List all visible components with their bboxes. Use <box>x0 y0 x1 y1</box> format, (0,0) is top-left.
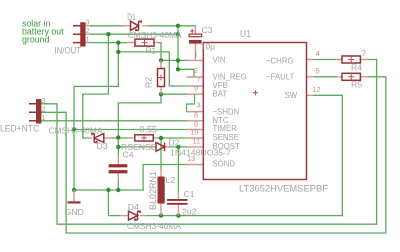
svg-text:C3: C3 <box>202 25 213 35</box>
svg-text:CMSH3-40MA: CMSH3-40MA <box>128 30 182 40</box>
svg-text:U1: U1 <box>240 28 251 40</box>
svg-text:5: 5 <box>316 66 320 75</box>
svg-text:11: 11 <box>193 136 200 145</box>
svg-text:GND: GND <box>65 207 84 217</box>
svg-text:13: 13 <box>187 154 195 163</box>
svg-text:L2: L2 <box>166 175 176 185</box>
svg-text:?: ? <box>361 48 366 58</box>
svg-text:BAT: BAT <box>213 90 228 99</box>
svg-text:9: 9 <box>194 84 198 93</box>
svg-text:SGND: SGND <box>213 160 236 169</box>
svg-text:C4: C4 <box>123 150 134 160</box>
svg-text:1: 1 <box>86 34 90 43</box>
svg-text:ground: ground <box>22 34 49 44</box>
svg-text:12: 12 <box>313 85 321 94</box>
svg-text:R4: R4 <box>351 62 362 72</box>
svg-text:R5: R5 <box>351 80 362 90</box>
svg-text:TIMER: TIMER <box>213 124 238 133</box>
svg-text:D1: D1 <box>127 12 135 22</box>
svg-text:2: 2 <box>194 66 198 75</box>
svg-text:~FAULT: ~FAULT <box>266 73 294 82</box>
svg-text:LED+NTC: LED+NTC <box>0 124 40 134</box>
svg-text:VIN_REG: VIN_REG <box>213 72 247 81</box>
svg-text:D3: D3 <box>97 141 108 151</box>
svg-text:C1: C1 <box>184 189 195 199</box>
svg-text:R2: R2 <box>144 77 154 88</box>
svg-text:3: 3 <box>197 100 201 109</box>
svg-text:CMSH3-40MA: CMSH3-40MA <box>49 125 103 135</box>
svg-text:2u2: 2u2 <box>182 207 197 217</box>
svg-text:SENSE: SENSE <box>213 133 239 142</box>
svg-text:BL02RN1: BL02RN1 <box>148 171 158 210</box>
svg-text:~CHRG: ~CHRG <box>266 56 294 65</box>
svg-text:1: 1 <box>41 113 45 122</box>
svg-text:10: 10 <box>191 127 199 136</box>
svg-text:D4: D4 <box>128 202 139 212</box>
svg-text:BOOST: BOOST <box>213 142 241 151</box>
svg-text:D2: D2 <box>169 138 180 148</box>
svg-text:10µ: 10µ <box>201 42 216 52</box>
svg-text:0.55: 0.55 <box>140 124 157 135</box>
svg-text:4: 4 <box>316 49 320 58</box>
svg-text:IN/OUT: IN/OUT <box>55 45 82 55</box>
svg-text:8: 8 <box>194 110 198 119</box>
svg-text:R1: R1 <box>146 47 157 56</box>
svg-text:SW: SW <box>285 91 298 100</box>
svg-text:VIN: VIN <box>213 55 226 64</box>
svg-text:LT3652HVEMSEPBF: LT3652HVEMSEPBF <box>239 183 328 194</box>
svg-text:CMSH3-40MA: CMSH3-40MA <box>127 221 181 231</box>
svg-text:1: 1 <box>194 50 198 59</box>
